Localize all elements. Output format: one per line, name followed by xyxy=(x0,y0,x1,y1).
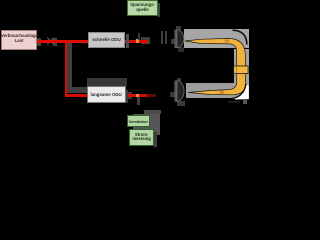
wire red bottom left segment xyxy=(65,94,88,97)
box langsame ODU xyxy=(87,86,126,103)
stub source drop 1 xyxy=(161,31,163,44)
marker dark dash on bottom cable xyxy=(220,91,225,94)
wire black bar above langsame ODU xyxy=(87,78,128,86)
junction gray block before ear wire xyxy=(141,37,150,44)
earpiece bottom xyxy=(175,81,177,102)
wire red top re-over block xyxy=(125,40,148,43)
gray under top earpiece xyxy=(178,47,184,52)
wire red vertical branch xyxy=(65,41,68,96)
panel behind amplifier boxes xyxy=(133,114,160,136)
node orange bottom xyxy=(136,94,139,97)
wire black corner to langsame ODU xyxy=(67,87,92,93)
stub to top earpiece xyxy=(171,39,175,44)
stub to bottom earpiece xyxy=(170,92,174,97)
shadow right of Strommessung xyxy=(154,132,156,147)
black strip bottom right xyxy=(228,101,240,103)
shadow right of source box xyxy=(158,3,160,17)
junction block at load output xyxy=(37,38,40,46)
wire red main horizontal top xyxy=(37,40,150,43)
cable yellow pipe xyxy=(185,38,246,94)
panel top-right piece xyxy=(144,110,161,114)
gray square bottom right xyxy=(243,100,247,104)
stub above orange node xyxy=(138,33,140,41)
earpiece top xyxy=(175,30,177,48)
gray above bottom earpiece xyxy=(177,78,182,81)
shadow right of langsame ODU xyxy=(126,90,128,103)
box schnelle ODU xyxy=(88,32,125,48)
wire black vertical pair band xyxy=(67,42,72,88)
gray below bottom earpiece xyxy=(177,101,186,106)
box Verbraucher-Last (pink) xyxy=(1,30,37,50)
shadow right of schnelle ODU xyxy=(126,34,129,48)
arc black top bend xyxy=(233,30,247,44)
arc black bottom bend xyxy=(231,84,246,99)
svg overlay for cable, earpieces, arcs xyxy=(0,0,250,150)
node orange top xyxy=(136,39,139,42)
box Spannungsquelle (green) xyxy=(127,0,158,16)
stub source drop 2 xyxy=(165,31,167,44)
panel gray top cable xyxy=(184,29,249,48)
wire crossing X mark xyxy=(46,36,55,46)
stub below orange node to amplifier xyxy=(137,97,139,105)
marker dark dash on top cable xyxy=(225,39,230,42)
gray above top earpiece xyxy=(176,26,181,30)
junction gray at langsame output xyxy=(126,92,132,99)
panel gray bottom cable xyxy=(186,83,241,97)
connector on cable xyxy=(234,66,249,74)
wire red bottom right segment xyxy=(126,94,148,97)
box Verstaerker (green) xyxy=(127,115,150,127)
junction block B xyxy=(53,38,57,46)
panel gray right cable xyxy=(234,49,250,98)
box Strommessung (green) xyxy=(129,129,154,146)
wedge white bottom bend xyxy=(232,84,249,100)
wire dark red continuation xyxy=(147,94,156,96)
